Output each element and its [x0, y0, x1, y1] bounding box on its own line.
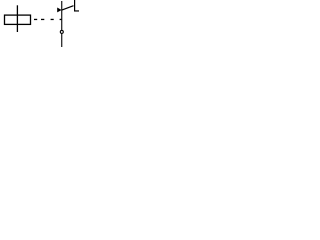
fixed contact wire to right edge [74, 10, 79, 12]
contact arrowhead [57, 8, 61, 13]
contact common wire (vertical) [61, 1, 63, 47]
contact pivot circle [60, 30, 63, 33]
relay K1 (coil + mechanical link + contact) [0, 0, 79, 47]
wire dash 2 [41, 18, 44, 20]
coil terminal wire (vertical through box) [16, 5, 18, 32]
coil K1 body (IEC rectangle) [5, 15, 31, 24]
wire dash 3 [51, 18, 54, 20]
contact blade (diagonal) [62, 6, 74, 10]
wire dash 4 [60, 18, 62, 20]
fixed contact terminal (vertical bar) [74, 0, 76, 11]
mechanical link (dashed line) [34, 18, 37, 20]
